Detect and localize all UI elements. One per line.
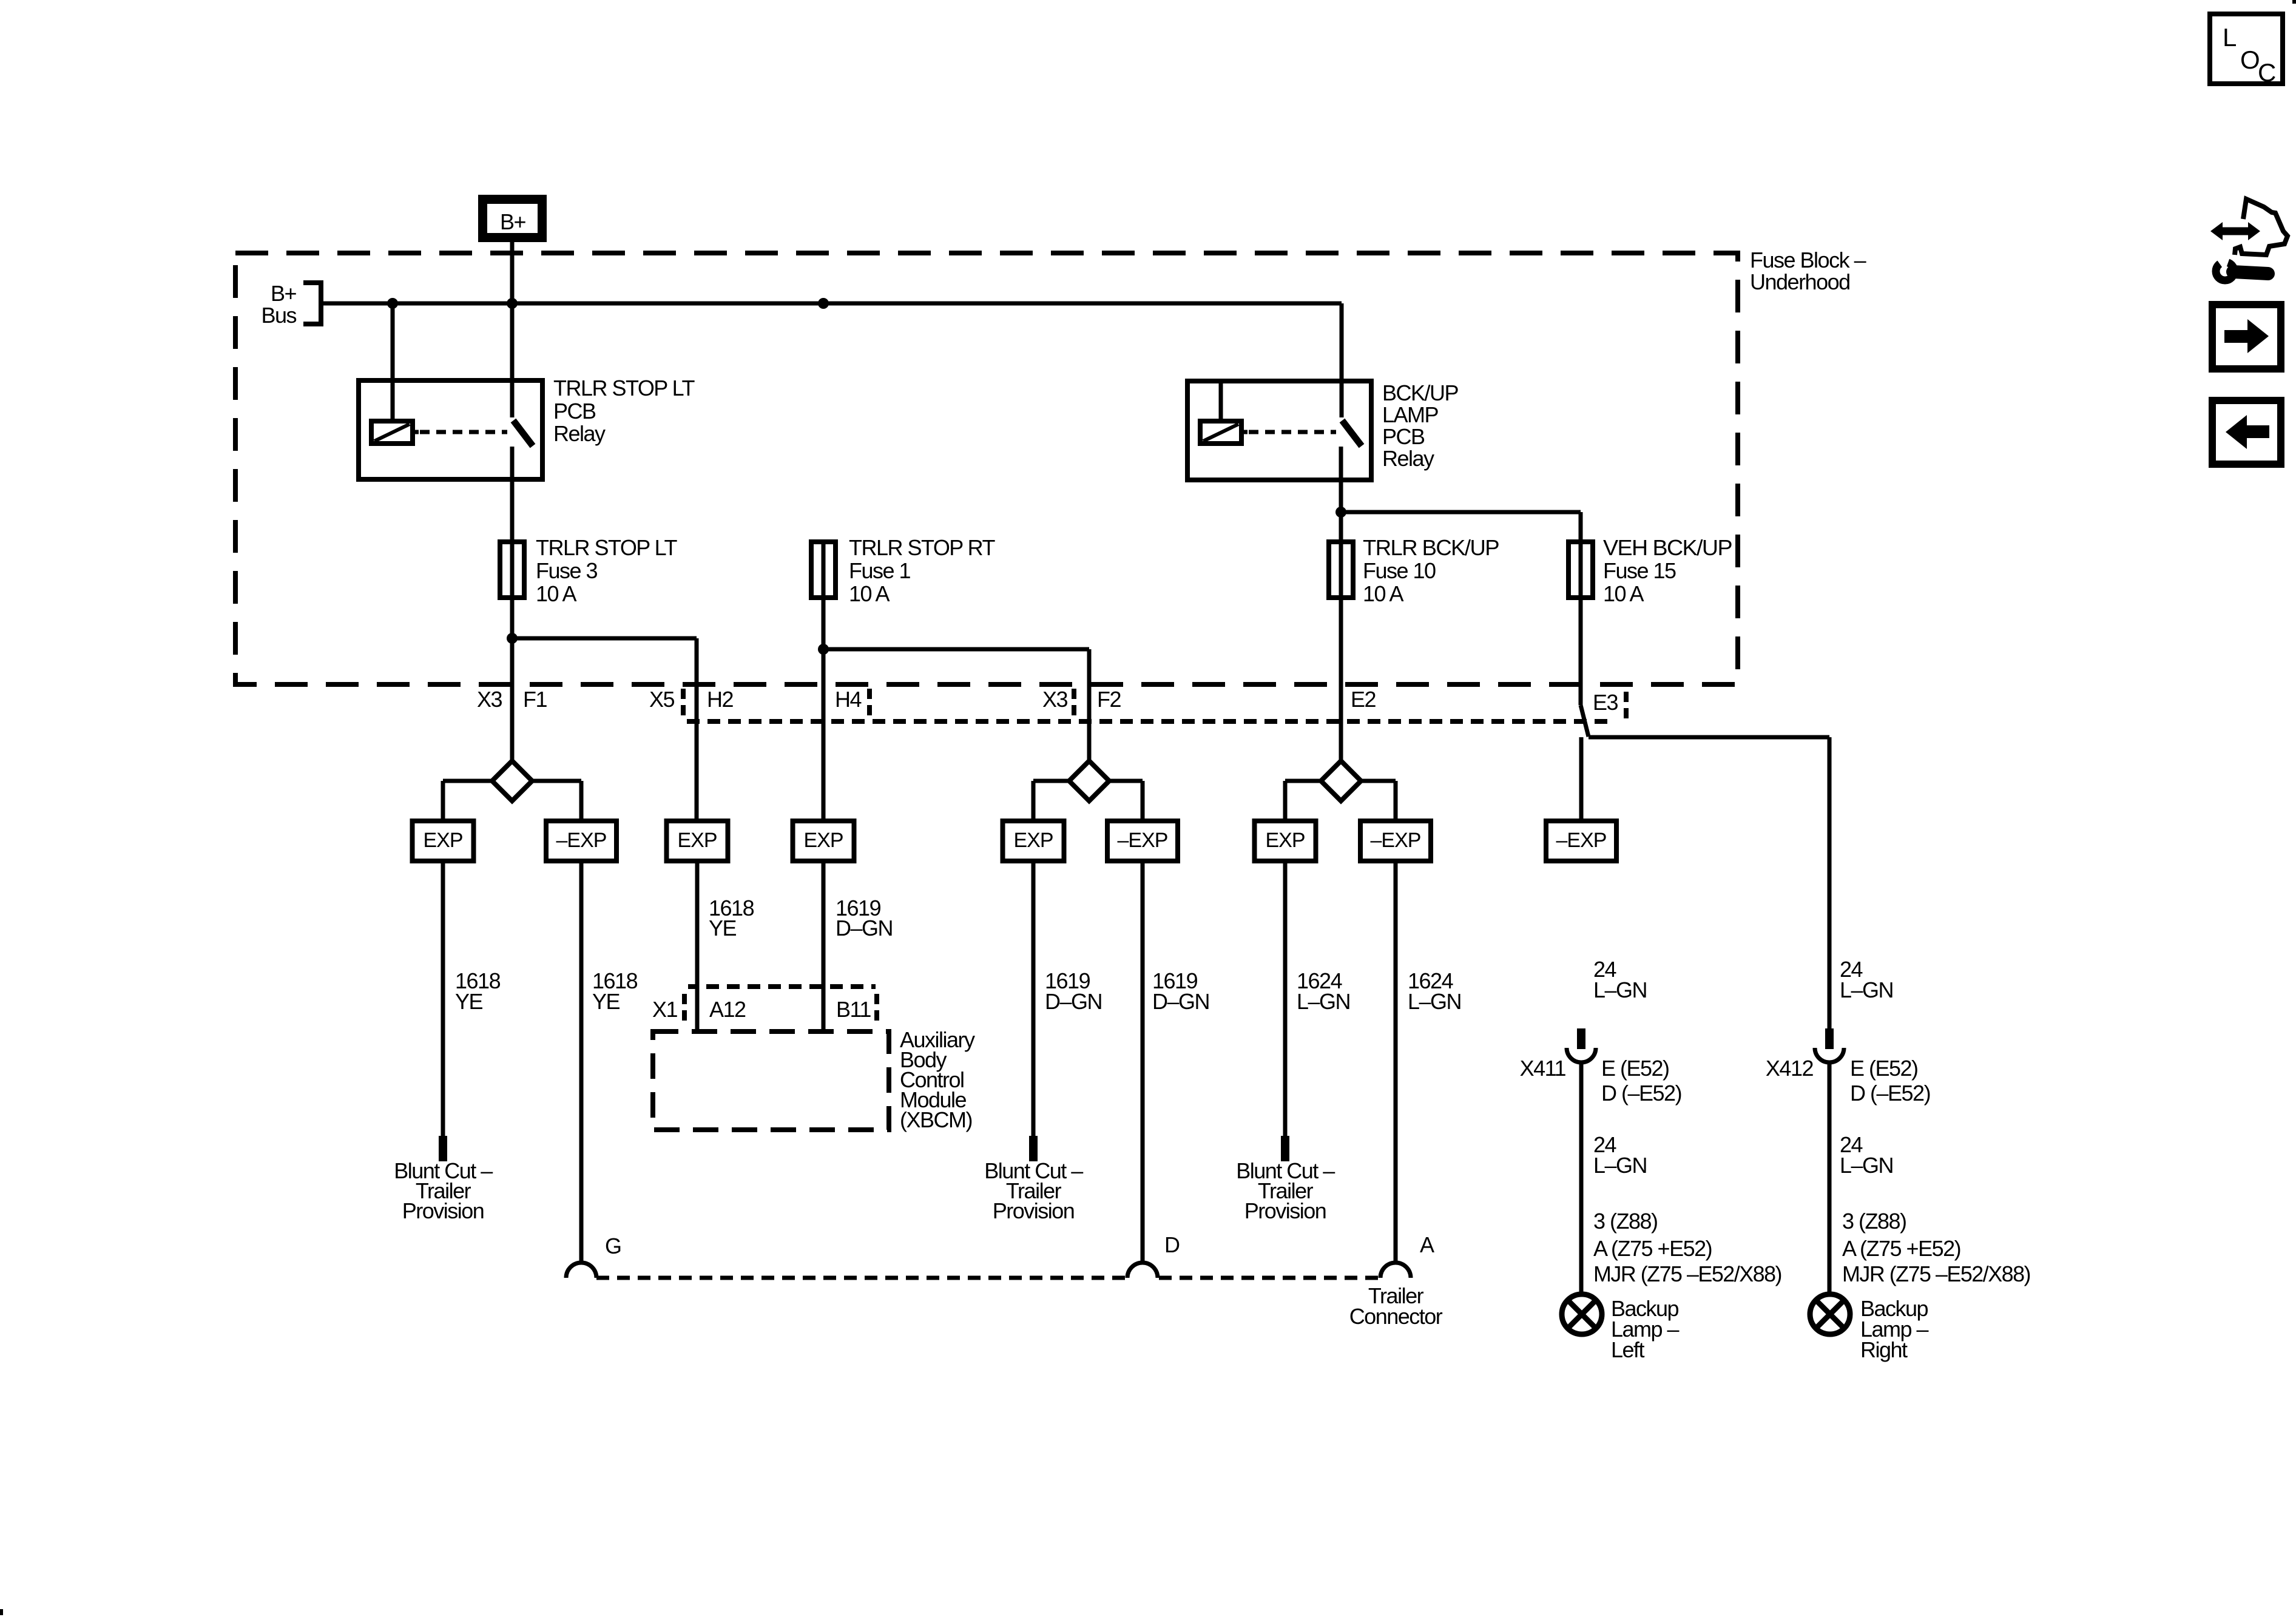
relay1 coil-contact dashed link — [420, 430, 507, 434]
wire branch to connector X5 H2 — [512, 638, 697, 821]
terminal blunt cut (1618) — [439, 1136, 447, 1161]
label XBCM — [900, 1027, 975, 1132]
option box -EXP (1618 YE trailer G) — [546, 821, 616, 861]
wire relay1 coil pin — [391, 303, 395, 421]
connector X411 — [1520, 1028, 1681, 1106]
label wire 1618 YE (trailer) — [592, 968, 638, 1014]
relay2 coil pin — [1219, 381, 1223, 421]
wire relay2 output — [1339, 447, 1343, 542]
svg-text:10 A: 10 A — [849, 581, 890, 606]
relay2 coil — [1200, 421, 1248, 444]
wire through fuse 10 — [1339, 542, 1343, 598]
svg-text:L–GN: L–GN — [1840, 977, 1893, 1002]
connector pin B11 — [836, 994, 877, 1027]
connector pin X1|A12 — [652, 994, 746, 1027]
svg-text:–EXP: –EXP — [1556, 829, 1607, 852]
label wire 1624 L-GN (left) — [1297, 968, 1350, 1014]
junction bus / fuse 1 feed — [818, 298, 829, 309]
wire splice1 right leg — [532, 781, 581, 821]
fuse block 'Fuse Block - Underhood' dashed boundary — [235, 253, 1738, 684]
label Blunt Cut - Trailer Provision (1618) — [394, 1158, 493, 1223]
svg-text:–EXP: –EXP — [1371, 829, 1421, 852]
svg-text:VEH BCK/UP: VEH BCK/UP — [1603, 535, 1732, 560]
connector pin H4 — [835, 687, 869, 717]
svg-text:X411: X411 — [1520, 1056, 1566, 1081]
wire fuse10 to splice — [1339, 598, 1343, 761]
label wire 1618 YE (left) — [455, 968, 501, 1014]
wire 1618 YE to blunt cut — [441, 861, 445, 1136]
svg-text:Fuse 3: Fuse 3 — [536, 558, 598, 583]
pin labels right lamp — [1842, 1209, 2030, 1286]
svg-text:X5: X5 — [649, 687, 675, 712]
page mark top-right — [2292, 0, 2296, 4]
wire splice2 left leg — [1033, 781, 1069, 821]
connector X412 — [1766, 1028, 1930, 1106]
svg-text:Fuse 1: Fuse 1 — [849, 558, 911, 583]
option box -EXP (1619 D-GN trailer D) — [1107, 821, 1178, 861]
node B+ Bus bracket — [261, 281, 321, 328]
svg-text:A (Z75 +E52): A (Z75 +E52) — [1593, 1236, 1712, 1261]
svg-text:PCB: PCB — [553, 399, 596, 424]
svg-text:LAMP: LAMP — [1382, 402, 1439, 427]
svg-text:Connector: Connector — [1349, 1304, 1443, 1329]
svg-text:Left: Left — [1611, 1337, 1645, 1362]
svg-text:X3: X3 — [477, 687, 502, 712]
option box -EXP (1624 L-GN trailer A) — [1360, 821, 1431, 861]
svg-text:TRLR STOP LT: TRLR STOP LT — [553, 376, 695, 400]
svg-text:X1: X1 — [652, 997, 678, 1022]
label wire 24 L-GN (X412 upper) — [1840, 957, 1893, 1002]
junction relay2 output / fuse 15 branch — [1335, 507, 1346, 518]
connector pin X3|F1 — [477, 687, 547, 712]
terminal blunt cut (1619) — [1029, 1136, 1038, 1161]
svg-text:G: G — [605, 1234, 621, 1258]
relay2 switch blade — [1342, 420, 1362, 446]
fuse F3 TRLR STOP LT Fuse 3 10A — [500, 535, 677, 606]
svg-text:YE: YE — [592, 989, 620, 1014]
label wire 24 L-GN (X411 upper) — [1593, 957, 1647, 1002]
relay2 coil-contact dashed link — [1249, 430, 1336, 434]
splice diamond (fuse 3 leg) — [492, 761, 532, 801]
wire 1624 L-GN to blunt cut — [1283, 861, 1288, 1136]
junction bus / relay coil — [387, 298, 398, 309]
lamp Backup Lamp - Left — [1562, 1294, 1680, 1362]
svg-text:EXP: EXP — [423, 829, 462, 852]
icon arrow next (boxed right arrow) — [2212, 305, 2281, 369]
wire 24 L-GN to right backup lamp — [1828, 1062, 1832, 1295]
label Trailer Connector — [1349, 1283, 1443, 1329]
icon arrow back (boxed left arrow) — [2212, 400, 2281, 464]
junction bus / B+ drop — [507, 298, 518, 309]
svg-text:YE: YE — [455, 989, 483, 1014]
relay1 coil — [371, 421, 419, 444]
wire fuse1 down (H4 leg) — [822, 598, 826, 821]
svg-text:–EXP: –EXP — [1118, 829, 1168, 852]
svg-text:EXP: EXP — [677, 829, 717, 852]
svg-text:D: D — [1164, 1232, 1180, 1257]
option box EXP (1618 YE XBCM A12) — [667, 821, 728, 861]
svg-text:H4: H4 — [835, 687, 861, 712]
connector terminal D — [1127, 1232, 1180, 1278]
label relay2 — [1382, 380, 1459, 471]
svg-text:EXP: EXP — [803, 829, 843, 852]
wire relay1 switch feed — [510, 303, 515, 417]
svg-text:B11: B11 — [836, 997, 871, 1022]
svg-text:3 (Z88): 3 (Z88) — [1842, 1209, 1906, 1234]
wire through fuse 1 — [822, 542, 826, 598]
page mark bottom-left — [0, 1609, 3, 1615]
svg-text:X412: X412 — [1766, 1056, 1814, 1081]
svg-text:L–GN: L–GN — [1840, 1153, 1893, 1178]
relay BCK/UP LAMP PCB Relay box — [1187, 381, 1371, 480]
svg-text:Fuse 10: Fuse 10 — [1363, 558, 1436, 583]
wire through fuse 3 — [510, 542, 515, 598]
svg-text:Fuse 15: Fuse 15 — [1603, 558, 1676, 583]
option box -EXP (24 L-GN backup lamps) — [1546, 821, 1616, 861]
svg-text:A: A — [1420, 1232, 1434, 1257]
svg-text:C: C — [2258, 58, 2276, 87]
wire splice3 right leg — [1361, 781, 1396, 821]
fuse F15 VEH BCK/UP Fuse 15 10A — [1568, 535, 1732, 606]
svg-text:D–GN: D–GN — [1152, 989, 1209, 1014]
wire fuse3 to splice — [510, 598, 515, 761]
svg-text:E3: E3 — [1593, 690, 1618, 715]
wire 1618 YE to XBCM A12 — [695, 861, 700, 1031]
wire E3 to right lamp branch — [1589, 737, 1829, 1028]
svg-text:D–GN: D–GN — [1045, 989, 1102, 1014]
svg-text:E (E52): E (E52) — [1601, 1056, 1669, 1081]
svg-text:PCB: PCB — [1382, 424, 1425, 449]
connector terminal A — [1380, 1232, 1434, 1278]
svg-text:L–GN: L–GN — [1593, 977, 1647, 1002]
label Blunt Cut - Trailer Provision (1619) — [984, 1158, 1083, 1223]
label wire 24 L-GN (X412 lower) — [1840, 1132, 1893, 1178]
svg-text:MJR (Z75 –E52/X88): MJR (Z75 –E52/X88) — [1593, 1261, 1781, 1286]
wire branch to fuse 15 — [1341, 512, 1581, 542]
svg-text:Provision: Provision — [402, 1198, 484, 1223]
wire through fuse 15 — [1579, 542, 1583, 598]
svg-text:L–GN: L–GN — [1408, 989, 1461, 1014]
connector body dashed line — [687, 719, 1609, 724]
svg-text:Fuse Block –: Fuse Block – — [1750, 248, 1866, 272]
trailer connector dashed body — [596, 1276, 1379, 1280]
svg-text:10 A: 10 A — [1363, 581, 1404, 606]
option box EXP (1618 YE blunt) — [413, 821, 474, 861]
svg-text:Right: Right — [1860, 1337, 1908, 1362]
wire branch to connector X3 F2 — [823, 649, 1089, 761]
relay TRLR STOP LT PCB Relay box — [359, 380, 542, 479]
splice diamond (E2 leg) — [1321, 761, 1361, 801]
svg-text:(XBCM): (XBCM) — [900, 1107, 972, 1132]
svg-text:–EXP: –EXP — [556, 829, 607, 852]
svg-text:TRLR STOP RT: TRLR STOP RT — [849, 535, 995, 560]
svg-text:F1: F1 — [523, 687, 547, 712]
svg-text:L–GN: L–GN — [1297, 989, 1350, 1014]
svg-text:BCK/UP: BCK/UP — [1382, 380, 1459, 405]
module Auxiliary Body Control Module (XBCM) dashed box — [653, 1031, 889, 1130]
label wire 1619 D-GN (XBCM) — [836, 896, 893, 940]
wire B+ to bus — [510, 242, 515, 303]
wire E3 jog — [1581, 705, 1589, 737]
svg-text:A (Z75 +E52): A (Z75 +E52) — [1842, 1236, 1960, 1261]
svg-text:YE: YE — [709, 916, 737, 940]
wire 1624 L-GN to trailer connector A — [1394, 861, 1398, 1263]
svg-text:Bus: Bus — [261, 303, 296, 328]
XBCM connector dashed top — [688, 984, 876, 989]
junction fuse1 output / F2 branch — [818, 644, 829, 655]
wire 1619 D-GN to blunt cut — [1032, 861, 1036, 1136]
svg-text:Underhood: Underhood — [1750, 269, 1850, 294]
svg-text:B+: B+ — [271, 281, 297, 306]
connector pin X5|H2 — [649, 687, 734, 717]
wire 1618 YE to trailer connector G — [579, 861, 584, 1263]
svg-text:Provision: Provision — [1244, 1198, 1326, 1223]
splice diamond (F2 leg) — [1069, 761, 1109, 801]
svg-text:3 (Z88): 3 (Z88) — [1593, 1209, 1658, 1234]
icon LOC box — [2210, 14, 2283, 87]
svg-text:L–GN: L–GN — [1593, 1153, 1647, 1178]
label wire 1619 D-GN (trailer) — [1152, 968, 1209, 1014]
svg-text:10 A: 10 A — [1603, 581, 1644, 606]
power symbol B+ (battery feed) — [478, 195, 547, 242]
svg-text:TRLR BCK/UP: TRLR BCK/UP — [1363, 535, 1499, 560]
svg-text:F2: F2 — [1097, 687, 1121, 712]
label relay1 — [553, 376, 695, 446]
option box EXP (1619 D-GN blunt) — [1003, 821, 1064, 861]
option box EXP (1624 L-GN blunt) — [1255, 821, 1316, 861]
svg-text:X3: X3 — [1042, 687, 1068, 712]
wire splice1 left leg — [443, 781, 492, 821]
svg-text:B+: B+ — [500, 209, 526, 234]
label wire 1619 D-GN (left) — [1045, 968, 1102, 1014]
svg-text:MJR (Z75 –E52/X88): MJR (Z75 –E52/X88) — [1842, 1261, 2030, 1286]
relay1 switch blade — [513, 420, 533, 446]
svg-text:E2: E2 — [1351, 687, 1376, 712]
svg-text:L: L — [2223, 23, 2237, 52]
svg-text:TRLR STOP LT: TRLR STOP LT — [536, 535, 677, 560]
svg-text:A12: A12 — [709, 997, 746, 1022]
svg-text:EXP: EXP — [1013, 829, 1053, 852]
wire fuse15 to E3 connector — [1579, 598, 1583, 705]
fuse F1 TRLR STOP RT Fuse 1 10A — [811, 535, 995, 606]
label Blunt Cut - Trailer Provision (1624) — [1236, 1158, 1335, 1223]
label wire 1624 L-GN (trailer) — [1408, 968, 1461, 1014]
svg-text:Relay: Relay — [553, 421, 606, 446]
svg-text:EXP: EXP — [1265, 829, 1305, 852]
icon vehicle diagnostic (car outline, double arrow, wrench) — [2210, 199, 2288, 280]
lamp Backup Lamp - Right — [1810, 1294, 1929, 1362]
wire E3 to -EXP — [1579, 737, 1584, 821]
connector pin X3|F2 — [1042, 687, 1121, 717]
wire relay1 output to fuse 3 — [510, 447, 515, 542]
option box EXP (1619 D-GN XBCM B11) — [793, 821, 854, 861]
svg-text:H2: H2 — [707, 687, 733, 712]
fuse F10 TRLR BCK/UP Fuse 10 10A — [1329, 535, 1499, 606]
svg-text:D (–E52): D (–E52) — [1850, 1081, 1930, 1106]
wire 1619 D-GN to trailer connector D — [1141, 861, 1145, 1263]
label Fuse Block - Underhood — [1750, 248, 1866, 294]
pin labels left lamp — [1593, 1209, 1781, 1286]
wire splice3 left leg — [1285, 781, 1321, 821]
svg-text:D–GN: D–GN — [836, 916, 893, 940]
wire B+ bus horizontal — [321, 302, 1342, 306]
wire 24 L-GN to left backup lamp — [1579, 1062, 1584, 1295]
svg-text:Provision: Provision — [993, 1198, 1075, 1223]
connector pin E3 — [1593, 690, 1626, 720]
svg-text:E (E52): E (E52) — [1850, 1056, 1918, 1081]
terminal blunt cut (1624) — [1281, 1136, 1289, 1161]
wire splice2 right leg — [1109, 781, 1143, 821]
svg-text:Relay: Relay — [1382, 446, 1434, 471]
junction fuse3 output / H2 branch — [507, 633, 518, 644]
connector terminal G — [566, 1234, 621, 1278]
wire bus drop to relay2 switch — [1340, 303, 1344, 417]
label wire 24 L-GN (X411 lower) — [1593, 1132, 1647, 1178]
svg-text:O: O — [2240, 46, 2260, 74]
wire 1619 D-GN to XBCM B11 — [822, 861, 826, 1031]
svg-text:10 A: 10 A — [536, 581, 577, 606]
label wire 1618 YE (XBCM) — [709, 896, 754, 940]
svg-text:D (–E52): D (–E52) — [1601, 1081, 1681, 1106]
